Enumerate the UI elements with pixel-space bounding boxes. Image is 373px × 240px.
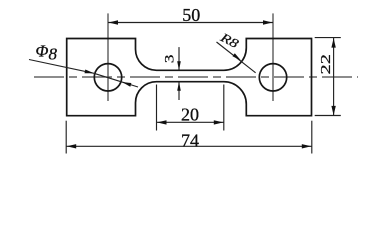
svg-text:3: 3 — [162, 55, 177, 63]
svg-text:74: 74 — [181, 131, 199, 151]
svg-text:Φ8: Φ8 — [36, 41, 58, 63]
svg-text:50: 50 — [182, 5, 200, 25]
svg-text:22: 22 — [317, 54, 333, 74]
svg-text:20: 20 — [181, 105, 199, 125]
